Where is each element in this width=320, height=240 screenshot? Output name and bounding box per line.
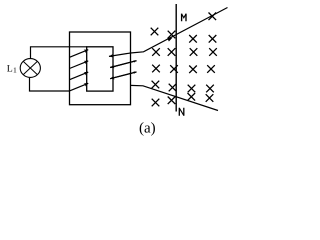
svg-text:L1: L1	[7, 63, 17, 74]
svg-text:(a): (a)	[139, 121, 156, 137]
